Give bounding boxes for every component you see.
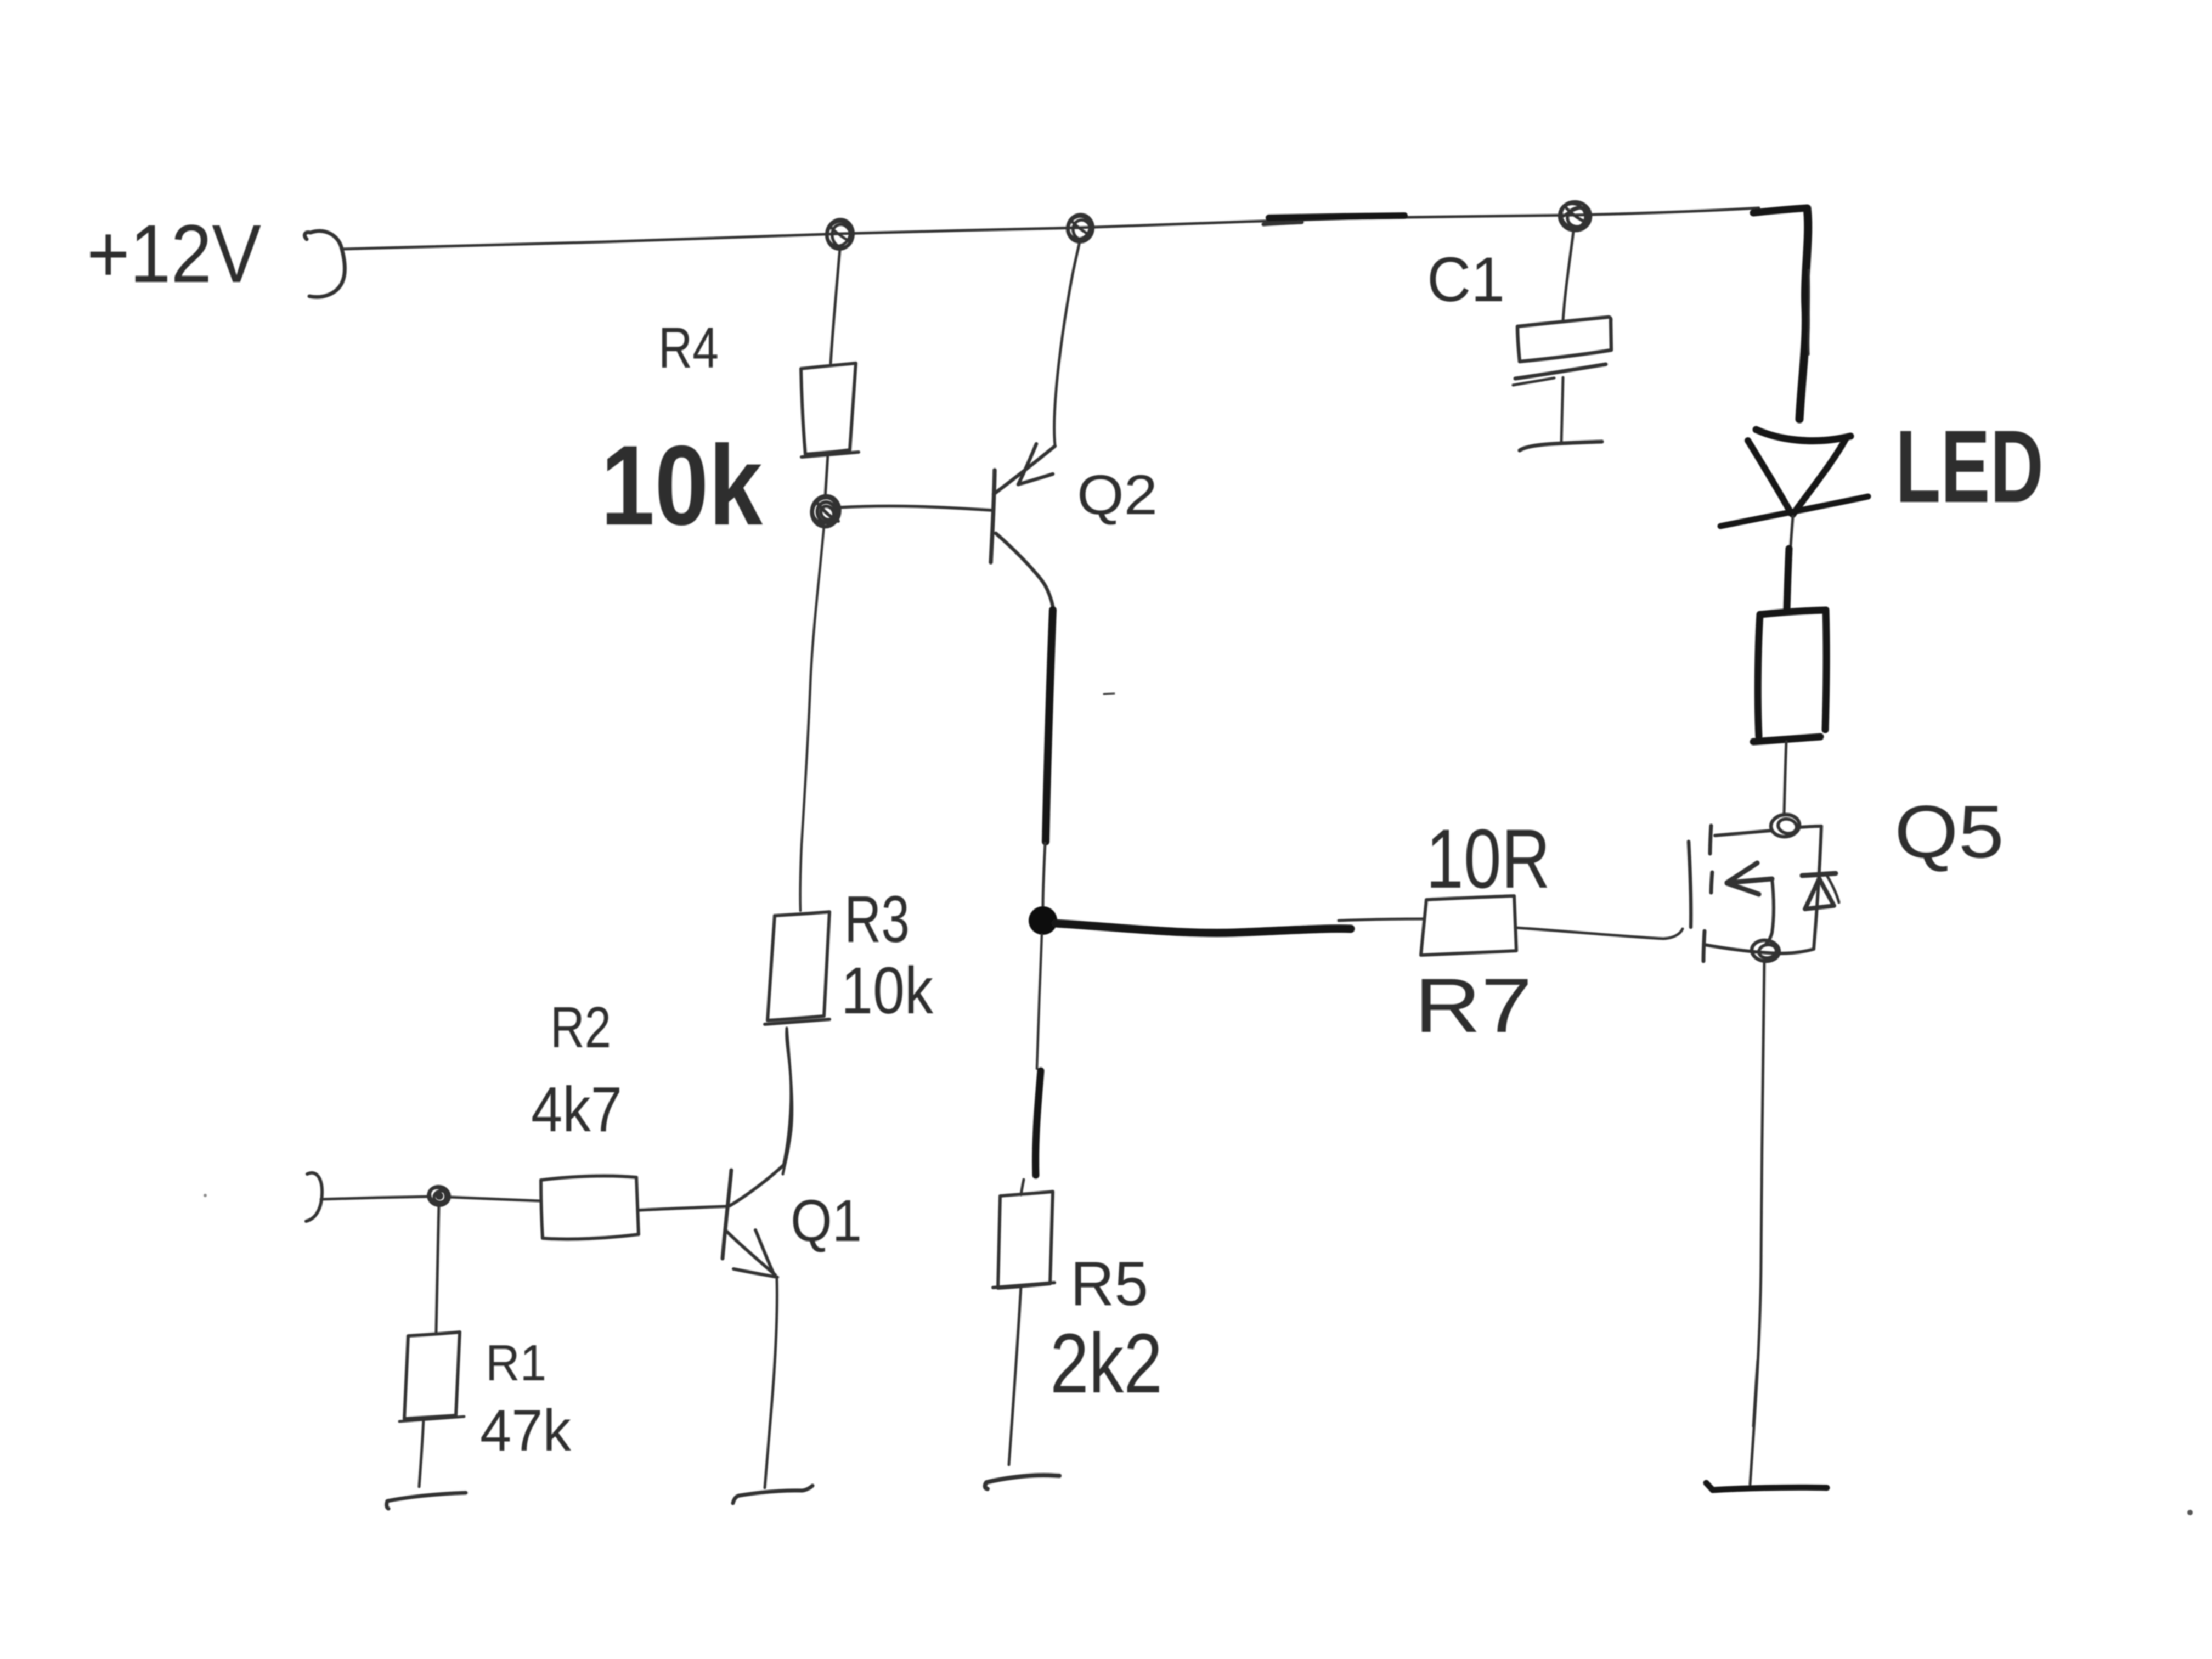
resistor R5	[993, 1192, 1054, 1288]
stray mark left of input	[204, 1194, 207, 1197]
ground Q1	[733, 1486, 812, 1503]
wire R7 to Q5 gate	[1516, 928, 1683, 939]
label 2k2	[1050, 1316, 1163, 1410]
svg-text:4k7: 4k7	[531, 1074, 622, 1145]
junction rail-Q2	[1064, 212, 1095, 244]
label R7	[1414, 962, 1532, 1048]
resistor R4	[801, 363, 859, 457]
wire input to junction	[321, 1197, 428, 1199]
label R5	[1070, 1249, 1148, 1319]
svg-text:R5: R5	[1070, 1249, 1148, 1319]
svg-text:R1: R1	[486, 1334, 546, 1391]
ground Q5	[1706, 1483, 1827, 1490]
capacitor C1	[1513, 317, 1611, 442]
wire R5 to ground	[1009, 1286, 1021, 1465]
wire lead into R5	[1021, 1180, 1024, 1195]
wire R2 to Q1 base	[639, 1206, 727, 1210]
ground C1	[1520, 442, 1602, 450]
svg-text:2k2: 2k2	[1050, 1316, 1163, 1410]
wire Q2 collector thick	[1046, 610, 1053, 842]
label Q1	[791, 1187, 862, 1254]
diode LED	[1720, 430, 1868, 609]
junction rail-R4	[823, 217, 855, 251]
resistor R1	[399, 1332, 464, 1421]
ground R1	[387, 1493, 466, 1509]
resistor R3	[765, 912, 830, 1024]
label 47k	[480, 1397, 571, 1463]
connector J1 (+12V input)	[304, 231, 345, 297]
wire Q1 collector up	[783, 1029, 791, 1165]
wire collector to node	[1043, 843, 1045, 907]
label R2	[550, 995, 611, 1060]
svg-text:Q1: Q1	[791, 1187, 862, 1254]
wire junction down to R1	[436, 1206, 439, 1332]
label Q2	[1077, 464, 1158, 526]
wire base node to Q2 base	[840, 506, 991, 510]
wire node to R7 (thick)	[1056, 923, 1351, 933]
svg-text:C1: C1	[1427, 245, 1505, 315]
svg-text:R3: R3	[844, 882, 910, 956]
label 10k (R3 value)	[841, 953, 933, 1028]
wire top +12V rail	[341, 208, 1759, 249]
wire junction to R2	[449, 1197, 540, 1201]
svg-text:Q5: Q5	[1894, 790, 2004, 873]
ground R5	[985, 1475, 1059, 1489]
wire R4 to base node	[825, 455, 828, 498]
wire thick corner rail to LED	[1753, 208, 1809, 419]
label R4	[658, 316, 719, 380]
stray mark below Q2	[1104, 693, 1114, 694]
svg-text:10k: 10k	[601, 422, 763, 549]
svg-text:R4: R4	[658, 316, 719, 380]
junction rail-C1	[1556, 199, 1592, 233]
transistor Q2 (PNP)	[991, 444, 1055, 609]
label R3	[844, 882, 910, 956]
wire junction to R4	[831, 249, 840, 363]
resistor R2	[541, 1176, 639, 1239]
label 4k7	[531, 1074, 622, 1145]
svg-text:+12V: +12V	[87, 207, 261, 300]
svg-text:10k: 10k	[841, 953, 933, 1028]
connector input	[306, 1173, 322, 1221]
wire Q1 emitter down	[765, 1279, 777, 1488]
wire R3 to Q1 collector	[783, 1028, 792, 1174]
resistor LED series (bold)	[1753, 610, 1826, 742]
wire node to R5 thick dash	[1036, 1071, 1041, 1175]
wire to R7 thin	[1339, 919, 1424, 921]
label Q5	[1894, 790, 2004, 873]
svg-text:Q2: Q2	[1077, 464, 1158, 526]
label R1	[486, 1334, 546, 1391]
wire R1 to ground	[419, 1419, 424, 1487]
label 10R	[1426, 812, 1550, 906]
label 10k (R4 value, bold)	[601, 422, 763, 549]
wire resistor to Q5 drain	[1784, 742, 1786, 814]
wire Q5 source down	[1750, 961, 1764, 1485]
label +12V	[87, 207, 261, 300]
wire node to R5 thin	[1037, 935, 1042, 1069]
transistor Q5 (MOSFET with body diode)	[1689, 813, 1839, 962]
svg-text:R2: R2	[550, 995, 611, 1060]
node A (solder dot)	[1029, 906, 1057, 935]
svg-text:R7: R7	[1414, 962, 1532, 1048]
wire base node down to R3	[800, 526, 824, 911]
svg-text:47k: 47k	[480, 1397, 571, 1463]
wire thick overdrawn rail segment	[1263, 216, 1404, 224]
transistor Q1 (NPN)	[723, 1165, 783, 1277]
wire junction to C1	[1563, 232, 1573, 321]
label C1	[1427, 245, 1505, 315]
stray mark bottom right	[2187, 1510, 2193, 1515]
junction input scribble	[427, 1185, 450, 1207]
node base junction scribble	[808, 493, 843, 529]
svg-text:LED: LED	[1895, 409, 2044, 524]
resistor R7	[1421, 896, 1516, 955]
wire Q2 emitter to rail junction	[1054, 244, 1079, 445]
svg-text:10R: 10R	[1426, 812, 1550, 906]
label LED	[1895, 409, 2044, 524]
